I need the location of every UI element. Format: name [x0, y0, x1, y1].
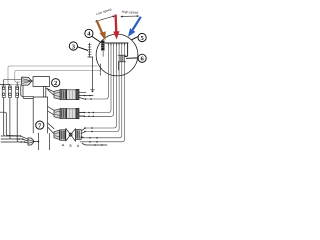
- svg-text:High speed: High speed: [122, 10, 139, 15]
- svg-text:Low speed: Low speed: [96, 7, 113, 16]
